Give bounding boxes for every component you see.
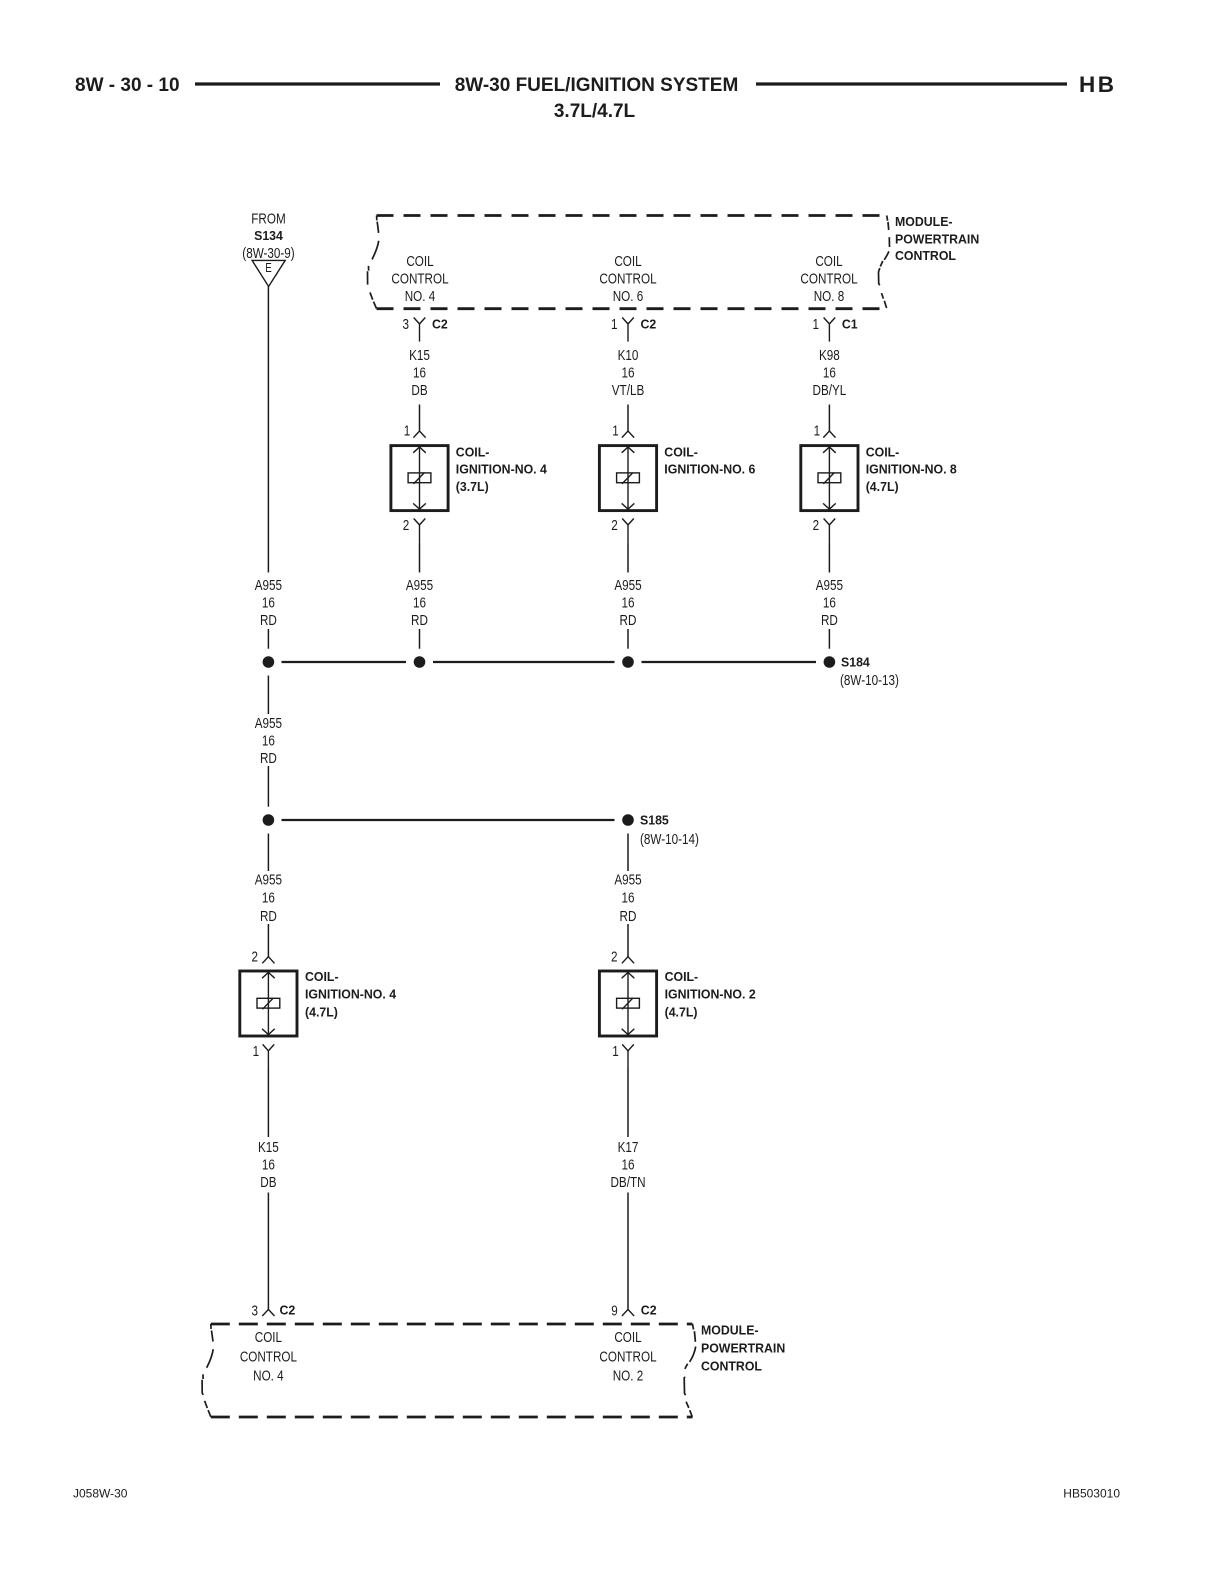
- svg-text:CONTROL: CONTROL: [895, 249, 956, 263]
- wire down to splice S185: [267, 766, 269, 807]
- svg-text:K98: K98: [819, 347, 840, 364]
- svg-text:MODULE-: MODULE-: [895, 215, 953, 229]
- wire to lower coil box: [627, 924, 629, 957]
- svg-text:CONTROL: CONTROL: [701, 1359, 762, 1373]
- svg-text:8W - 30 - 10: 8W - 30 - 10: [75, 75, 180, 96]
- svg-text:16: 16: [823, 594, 836, 611]
- svg-text:3.7L/4.7L: 3.7L/4.7L: [554, 101, 636, 122]
- wire into coil-ignition at x=420: [419, 405, 421, 432]
- wire into coil-ignition at x=829: [828, 405, 830, 432]
- svg-text:2: 2: [611, 517, 618, 534]
- svg-text:RD: RD: [620, 908, 637, 925]
- svg-text:A955: A955: [255, 577, 282, 594]
- svg-text:RD: RD: [260, 750, 277, 767]
- svg-text:MODULE-: MODULE-: [701, 1323, 759, 1337]
- svg-text:3: 3: [403, 316, 410, 333]
- svg-text:16: 16: [262, 1156, 275, 1173]
- module-powertrain control bottom dashed edge: [377, 307, 887, 310]
- splice S184: [824, 656, 836, 668]
- svg-text:DB: DB: [411, 382, 427, 399]
- svg-text:COIL: COIL: [255, 1329, 283, 1346]
- lower coil-ignition component box x=628: [599, 971, 656, 1036]
- svg-text:2: 2: [813, 517, 820, 534]
- svg-text:IGNITION-NO. 4: IGNITION-NO. 4: [305, 987, 396, 1001]
- splice junction at S184: [622, 656, 634, 668]
- svg-text:FROM: FROM: [251, 210, 285, 227]
- svg-text:16: 16: [621, 364, 634, 381]
- wire into coil-ignition at x=628: [627, 405, 629, 432]
- lower coil-ignition component box x=268: [240, 971, 297, 1036]
- svg-text:CONTROL: CONTROL: [599, 1348, 657, 1365]
- svg-text:COIL-: COIL-: [456, 445, 490, 459]
- splice junction at S184 (left): [263, 656, 275, 668]
- svg-text:C1: C1: [842, 317, 858, 331]
- connector pin 3 C2 into PCM: [262, 1309, 274, 1316]
- svg-text:A955: A955: [614, 871, 641, 888]
- svg-text:NO. 6: NO. 6: [613, 287, 644, 304]
- wire to splice S184: [419, 629, 421, 649]
- connector pin 1 above coil box x=628: [622, 431, 634, 438]
- svg-text:COIL: COIL: [815, 253, 843, 270]
- svg-text:1: 1: [611, 316, 618, 333]
- wire to splice S184: [627, 629, 629, 649]
- svg-text:CONTROL: CONTROL: [599, 270, 657, 287]
- svg-text:A955: A955: [816, 577, 843, 594]
- svg-text:K10: K10: [618, 347, 639, 364]
- PCM box top dashed edge: [211, 1323, 693, 1326]
- connector pin 1 C1 at x=829: [824, 318, 836, 342]
- connector pin 2 below coil box x=829: [824, 519, 836, 543]
- svg-text:16: 16: [621, 889, 634, 906]
- connector pin 2 above lower coil box x=628: [622, 957, 634, 964]
- svg-text:2: 2: [403, 517, 410, 534]
- module box right break edge: [879, 216, 890, 309]
- wire S184 bus segment 1: [282, 661, 407, 663]
- wire S184 bus segment 2: [433, 661, 615, 663]
- svg-text:8W-30 FUEL/IGNITION SYSTEM: 8W-30 FUEL/IGNITION SYSTEM: [455, 75, 739, 96]
- svg-text:HB503010: HB503010: [1063, 1486, 1120, 1500]
- svg-text:POWERTRAIN: POWERTRAIN: [701, 1341, 785, 1355]
- svg-text:NO. 8: NO. 8: [814, 287, 845, 304]
- svg-text:(8W-10-13): (8W-10-13): [840, 672, 899, 689]
- svg-text:COIL-: COIL-: [665, 970, 699, 984]
- connector pin 2 below coil box x=628: [622, 519, 634, 543]
- svg-text:(4.7L): (4.7L): [866, 480, 899, 494]
- wire S184 to A955 label: [267, 676, 269, 715]
- connector pin 3 C2 at x=420: [414, 318, 426, 342]
- svg-text:C2: C2: [280, 1303, 296, 1317]
- connector pin 9 C2 into PCM: [622, 1309, 634, 1316]
- wire to splice S184: [267, 629, 269, 649]
- svg-text:16: 16: [262, 889, 275, 906]
- svg-text:COIL-: COIL-: [305, 970, 339, 984]
- svg-text:COIL: COIL: [614, 253, 642, 270]
- wire to lower coil box: [267, 924, 269, 957]
- wire below coil box x=829: [828, 543, 830, 573]
- svg-text:16: 16: [823, 364, 836, 381]
- splice S185: [622, 814, 634, 826]
- svg-text:1: 1: [812, 316, 819, 333]
- splice junction at S184: [414, 656, 426, 668]
- svg-text:RD: RD: [620, 611, 637, 628]
- svg-text:(8W-10-14): (8W-10-14): [640, 831, 699, 848]
- wire below lower coil box: [267, 1069, 269, 1138]
- header rule right: [756, 82, 1067, 85]
- svg-text:K15: K15: [409, 347, 430, 364]
- svg-text:S185: S185: [640, 813, 669, 827]
- svg-text:RD: RD: [260, 908, 277, 925]
- svg-text:COIL-: COIL-: [866, 445, 900, 459]
- svg-text:16: 16: [621, 1156, 634, 1173]
- wire below S185: [267, 834, 269, 872]
- header rule left: [195, 82, 440, 85]
- svg-text:RD: RD: [260, 611, 277, 628]
- svg-text:(4.7L): (4.7L): [305, 1005, 338, 1019]
- svg-text:A955: A955: [406, 577, 433, 594]
- svg-text:POWERTRAIN: POWERTRAIN: [895, 232, 979, 246]
- wire below lower coil box: [627, 1069, 629, 1138]
- svg-text:C2: C2: [641, 1303, 657, 1317]
- svg-text:3: 3: [252, 1302, 259, 1319]
- svg-text:COIL: COIL: [406, 253, 434, 270]
- svg-text:CONTROL: CONTROL: [800, 270, 858, 287]
- svg-text:DB: DB: [260, 1174, 276, 1191]
- connector pin 1 C2 at x=628: [622, 318, 634, 342]
- svg-text:(8W-30-9): (8W-30-9): [242, 245, 294, 262]
- svg-text:2: 2: [611, 948, 618, 965]
- svg-text:S134: S134: [254, 229, 283, 243]
- coil-ignition component box x=628: [599, 446, 656, 511]
- connector pin 1 below lower coil box x=268: [263, 1044, 275, 1068]
- svg-text:9: 9: [611, 1302, 618, 1319]
- wire below coil box x=420: [419, 543, 421, 573]
- wire to splice S184: [828, 629, 830, 649]
- module-powertrain control top dashed edge: [377, 214, 887, 217]
- svg-text:E: E: [265, 262, 271, 275]
- svg-text:NO. 4: NO. 4: [253, 1367, 284, 1384]
- coil-ignition component box x=420: [391, 446, 448, 511]
- svg-text:A955: A955: [255, 714, 282, 731]
- svg-text:C2: C2: [641, 317, 657, 331]
- module box left break edge: [368, 216, 379, 309]
- svg-text:J058W-30: J058W-30: [73, 1486, 128, 1500]
- wire S185 bus segment: [282, 819, 615, 821]
- connector pin 1 above coil box x=829: [823, 431, 835, 438]
- svg-text:COIL: COIL: [614, 1329, 642, 1346]
- svg-text:A955: A955: [614, 577, 641, 594]
- wire S184 bus segment 3: [642, 661, 817, 663]
- wire K15 down to PCM: [267, 1193, 269, 1310]
- svg-text:DB/TN: DB/TN: [610, 1174, 645, 1191]
- svg-text:16: 16: [413, 594, 426, 611]
- svg-text:DB/YL: DB/YL: [813, 382, 847, 399]
- svg-text:C2: C2: [432, 317, 448, 331]
- svg-text:K15: K15: [258, 1139, 279, 1156]
- svg-text:K17: K17: [618, 1139, 639, 1156]
- svg-text:1: 1: [612, 1043, 619, 1060]
- coil-ignition component box x=829: [801, 446, 858, 511]
- svg-text:NO. 2: NO. 2: [613, 1367, 644, 1384]
- svg-text:COIL-: COIL-: [664, 445, 698, 459]
- connector pin 1 below lower coil box x=628: [622, 1044, 634, 1068]
- wire from S134 triangle down: [267, 287, 269, 573]
- svg-text:IGNITION-NO. 4: IGNITION-NO. 4: [456, 462, 547, 476]
- connector pin 1 above coil box x=420: [413, 431, 425, 438]
- svg-text:16: 16: [262, 594, 275, 611]
- svg-text:S184: S184: [841, 655, 870, 669]
- svg-text:RD: RD: [821, 611, 838, 628]
- svg-text:2: 2: [251, 948, 258, 965]
- wire below S185: [627, 834, 629, 872]
- svg-text:16: 16: [262, 732, 275, 749]
- svg-text:1: 1: [612, 422, 619, 439]
- svg-text:IGNITION-NO. 6: IGNITION-NO. 6: [664, 462, 755, 476]
- svg-text:IGNITION-NO. 8: IGNITION-NO. 8: [866, 462, 957, 476]
- off-page connector triangle E: [252, 260, 285, 286]
- svg-text:16: 16: [621, 594, 634, 611]
- svg-text:A955: A955: [255, 871, 282, 888]
- connector pin 2 above lower coil box x=268: [262, 957, 274, 964]
- svg-text:1: 1: [814, 422, 821, 439]
- wire below coil box x=628: [627, 543, 629, 573]
- svg-text:CONTROL: CONTROL: [240, 1348, 298, 1365]
- svg-text:VT/LB: VT/LB: [612, 382, 645, 399]
- svg-text:HB: HB: [1079, 72, 1117, 97]
- svg-text:16: 16: [413, 364, 426, 381]
- svg-text:1: 1: [404, 422, 411, 439]
- svg-text:IGNITION-NO. 2: IGNITION-NO. 2: [665, 987, 756, 1001]
- PCM box left break edge: [202, 1324, 213, 1417]
- svg-text:CONTROL: CONTROL: [391, 270, 449, 287]
- svg-text:NO. 4: NO. 4: [405, 287, 436, 304]
- PCM box right break edge: [684, 1324, 696, 1417]
- PCM box bottom dashed edge: [211, 1416, 693, 1419]
- svg-text:(4.7L): (4.7L): [665, 1005, 698, 1019]
- wire K17 down to PCM: [627, 1193, 629, 1310]
- svg-text:RD: RD: [411, 611, 428, 628]
- svg-text:(3.7L): (3.7L): [456, 480, 489, 494]
- svg-text:1: 1: [253, 1043, 260, 1060]
- splice junction at S185 (left): [263, 814, 275, 826]
- connector pin 2 below coil box x=420: [414, 519, 426, 543]
